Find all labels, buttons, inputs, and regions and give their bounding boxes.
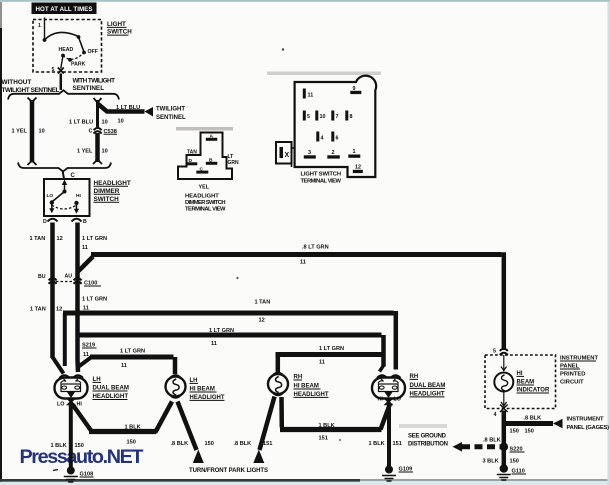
svg-text:3 BLK: 3 BLK [483, 459, 499, 465]
svg-text:HI: HI [378, 397, 384, 403]
svg-text:150: 150 [75, 443, 84, 449]
svg-text:HI: HI [76, 193, 81, 199]
svg-text:WITH TWILIGHT: WITH TWILIGHT [73, 78, 116, 85]
svg-text:11: 11 [319, 360, 325, 366]
svg-text:1 BLK: 1 BLK [369, 441, 385, 447]
svg-text:150: 150 [127, 440, 136, 446]
svg-text:7: 7 [336, 114, 339, 120]
svg-text:10: 10 [320, 114, 326, 120]
svg-text:1 BLK: 1 BLK [51, 443, 67, 449]
svg-text:151: 151 [263, 441, 272, 447]
svg-text:1 TAN: 1 TAN [255, 300, 271, 306]
svg-text:SEE GROUND: SEE GROUND [408, 434, 447, 440]
svg-text:TURN/FRONT PARK LIGHTS: TURN/FRONT PARK LIGHTS [189, 468, 268, 474]
svg-text:12: 12 [355, 165, 361, 171]
svg-text:LO: LO [57, 402, 65, 408]
svg-text:1 LT BLU: 1 LT BLU [69, 120, 93, 126]
svg-text:12: 12 [57, 236, 63, 242]
svg-text:PANEL (GAGES): PANEL (GAGES) [567, 425, 610, 431]
svg-text:150: 150 [525, 429, 534, 435]
svg-text:150: 150 [510, 459, 519, 465]
svg-text:HEAD: HEAD [59, 47, 74, 53]
svg-text:YEL: YEL [199, 185, 210, 191]
svg-text:INSTRUMENT: INSTRUMENT [567, 417, 604, 423]
svg-text:.8 BLK: .8 BLK [483, 438, 501, 444]
svg-text:SENTINEL: SENTINEL [73, 85, 105, 92]
svg-text:X: X [285, 152, 290, 159]
svg-text:11: 11 [121, 363, 127, 369]
svg-text:1 LT GRN: 1 LT GRN [209, 328, 234, 334]
svg-text:11: 11 [211, 341, 217, 347]
svg-text:HEADLIGHT: HEADLIGHT [185, 194, 219, 200]
svg-text:10: 10 [118, 119, 124, 125]
svg-text:HI: HI [77, 402, 83, 408]
svg-text:LIGHT SWITCH: LIGHT SWITCH [301, 171, 342, 177]
svg-text:150: 150 [510, 429, 519, 435]
svg-text:151: 151 [393, 441, 402, 447]
svg-text:151: 151 [319, 436, 328, 442]
svg-text:11: 11 [82, 245, 88, 251]
svg-text:5: 5 [307, 114, 310, 120]
svg-text:TERMINAL VIEW: TERMINAL VIEW [185, 207, 226, 213]
svg-text:TERMINAL VIEW: TERMINAL VIEW [301, 178, 342, 184]
svg-text:.8 BLK: .8 BLK [234, 441, 252, 447]
svg-text:10: 10 [102, 149, 108, 155]
svg-text:HOT AT ALL TIMES: HOT AT ALL TIMES [36, 6, 93, 13]
svg-text:HEADLIGHT: HEADLIGHT [93, 393, 129, 400]
svg-text:LO: LO [394, 397, 402, 403]
svg-text:4: 4 [494, 412, 497, 418]
svg-text:11: 11 [308, 93, 314, 99]
svg-text:10: 10 [102, 120, 108, 126]
svg-text:TWILIGHT SENTINEL: TWILIGHT SENTINEL [2, 87, 60, 94]
svg-text:150: 150 [205, 441, 214, 447]
svg-text:10: 10 [39, 129, 45, 135]
svg-text:1 LT GRN: 1 LT GRN [82, 236, 107, 242]
svg-text:6: 6 [336, 136, 339, 142]
svg-text:BU: BU [38, 274, 46, 280]
svg-text:11: 11 [300, 260, 306, 266]
svg-text:8: 8 [350, 114, 353, 120]
svg-text:.8 BLK: .8 BLK [524, 416, 542, 422]
svg-text:.8 BLK: .8 BLK [171, 441, 189, 447]
svg-text:DUAL BEAM: DUAL BEAM [93, 385, 129, 392]
svg-text:CIRCUIT: CIRCUIT [560, 380, 584, 386]
svg-text:OFF: OFF [88, 49, 98, 55]
svg-text:AU: AU [65, 274, 73, 280]
svg-text:SENTINEL: SENTINEL [156, 115, 186, 121]
svg-text:DISTRIBUTION: DISTRIBUTION [408, 442, 448, 448]
svg-text:Pressauto.NET: Pressauto.NET [20, 446, 144, 468]
svg-text:12: 12 [259, 318, 265, 324]
svg-text:LO: LO [47, 193, 54, 199]
svg-text:1 BLK: 1 BLK [125, 425, 141, 431]
svg-text:1 LT GRN: 1 LT GRN [82, 297, 107, 303]
svg-text:5: 5 [493, 349, 496, 355]
svg-text:C: C [89, 129, 93, 135]
svg-text:3: 3 [308, 150, 311, 156]
svg-text:DIMMER SWITCH: DIMMER SWITCH [185, 200, 226, 206]
svg-text:.8 LT GRN: .8 LT GRN [302, 245, 329, 251]
svg-text:PRINTED: PRINTED [560, 372, 585, 378]
svg-text:B: B [83, 219, 87, 225]
svg-text:TWILIGHT: TWILIGHT [156, 107, 185, 113]
svg-text:1 LT BLU: 1 LT BLU [116, 105, 140, 111]
svg-text:2: 2 [332, 150, 335, 156]
svg-text:1: 1 [353, 149, 356, 155]
svg-text:PARK: PARK [71, 62, 86, 68]
svg-text:1 YEL: 1 YEL [12, 129, 28, 135]
svg-text:5: 5 [52, 67, 55, 73]
svg-text:12: 12 [56, 307, 62, 313]
svg-text:WITHOUT: WITHOUT [2, 79, 32, 86]
svg-text:1 TAN: 1 TAN [30, 236, 46, 242]
svg-text:1 BLK: 1 BLK [319, 423, 335, 429]
svg-text:1: 1 [38, 23, 41, 29]
svg-text:D: D [43, 219, 47, 225]
svg-text:GRN: GRN [228, 160, 240, 166]
svg-text:TAN: TAN [187, 150, 197, 156]
svg-text:1 YEL: 1 YEL [77, 149, 93, 155]
svg-text:1 TAN: 1 TAN [30, 307, 46, 313]
svg-text:1 LT GRN: 1 LT GRN [319, 346, 344, 352]
svg-text:1 LT GRN: 1 LT GRN [120, 349, 145, 355]
svg-text:4: 4 [321, 136, 324, 142]
